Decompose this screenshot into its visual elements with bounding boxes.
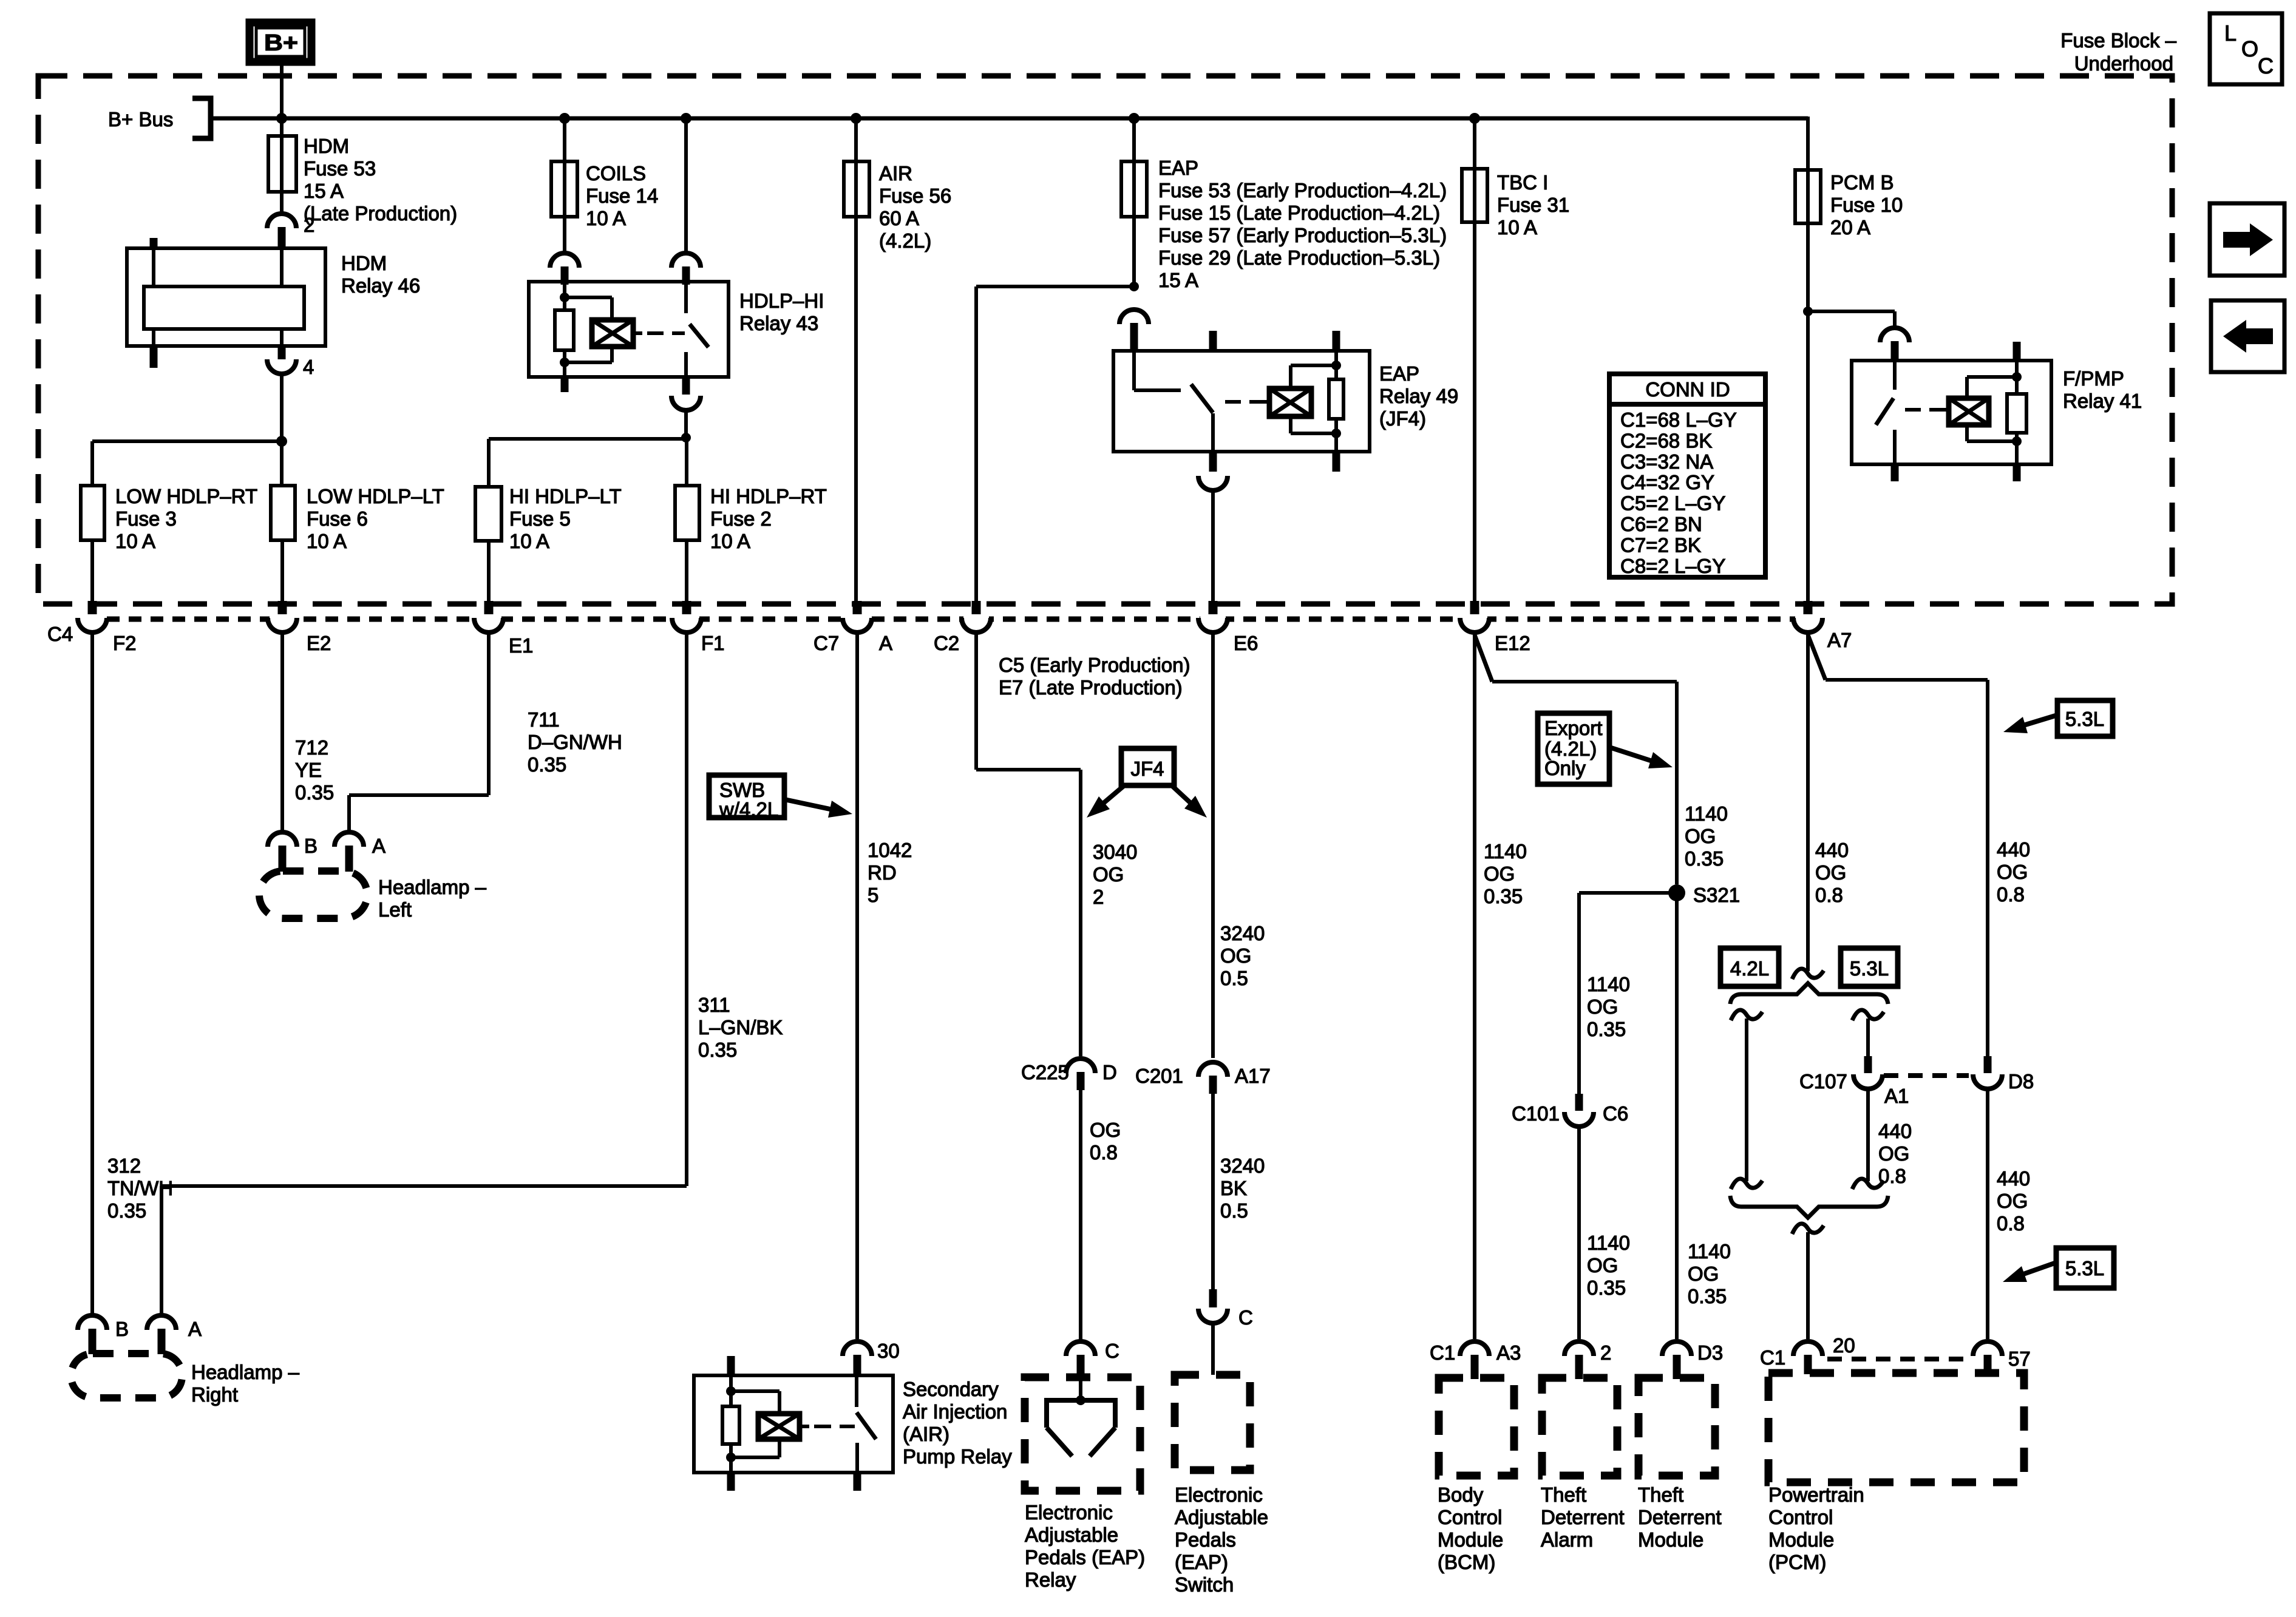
svg-text:Switch: Switch: [1175, 1573, 1234, 1596]
svg-text:0.5: 0.5: [1220, 1199, 1248, 1222]
connector headlamp-left pin A: [335, 832, 385, 872]
svg-text:B+: B+: [264, 30, 298, 56]
svg-text:2: 2: [1093, 886, 1104, 908]
svg-text:C6: C6: [1603, 1102, 1628, 1125]
svg-text:HI HDLP–RT: HI HDLP–RT: [710, 485, 827, 507]
svg-text:3240: 3240: [1220, 1154, 1265, 1177]
EAP switch dashed box: [1175, 1375, 1250, 1470]
relay41 coil X-box: [1949, 398, 1989, 425]
svg-text:3240: 3240: [1220, 922, 1265, 944]
svg-text:Module: Module: [1438, 1528, 1503, 1551]
harness merge brace bottom: [1730, 1196, 1888, 1218]
connector pin E6: [1198, 601, 1258, 654]
svg-text:Only: Only: [1544, 757, 1586, 779]
svg-text:4: 4: [303, 356, 314, 378]
relay49 switch input wire: [1134, 351, 1181, 390]
relay49 coil resistor: [1329, 365, 1343, 433]
AIR relay coil wire bottom: [729, 1457, 733, 1491]
relay46 pin stub bottom-left: [150, 329, 158, 368]
svg-text:5.3L: 5.3L: [1850, 957, 1889, 980]
svg-text:Relay: Relay: [1025, 1568, 1076, 1591]
svg-text:10 A: 10 A: [586, 207, 626, 229]
AIR relay coil X-box: [758, 1414, 800, 1439]
wire bus to EAP fuse: [1132, 118, 1136, 161]
svg-text:C7: C7: [813, 632, 839, 654]
junction bus-COILS: [559, 113, 570, 124]
svg-text:Adjustable: Adjustable: [1175, 1506, 1268, 1528]
svg-text:C107: C107: [1799, 1070, 1847, 1093]
svg-text:E7 (Late Production): E7 (Late Production): [999, 676, 1183, 699]
junction bus-AIR: [851, 113, 861, 124]
svg-text:BK: BK: [1220, 1177, 1247, 1199]
left arrow box (diagram continues): [2211, 300, 2284, 372]
svg-text:S321: S321: [1693, 884, 1740, 906]
svg-text:C1=68 L–GY: C1=68 L–GY: [1620, 408, 1737, 431]
connector pin 2 relay46: [267, 214, 314, 249]
svg-text:Theft: Theft: [1638, 1483, 1683, 1506]
svg-text:Electronic: Electronic: [1175, 1483, 1263, 1506]
harness curl 4.2L top: [1731, 1010, 1762, 1020]
relay43 coil wire bottom: [563, 362, 566, 392]
svg-text:Fuse 57 (Early Production–5.3L: Fuse 57 (Early Production–5.3L): [1158, 224, 1447, 246]
B+ battery terminal box: [250, 22, 311, 62]
svg-text:20 A: 20 A: [1830, 216, 1870, 239]
svg-text:PCM B: PCM B: [1830, 171, 1894, 194]
wire branch to C2: [976, 286, 1134, 603]
relay49 stub top-right: [1333, 331, 1340, 351]
svg-text:B: B: [304, 835, 318, 857]
relay43 coil branch: [565, 297, 612, 320]
svg-text:HDM: HDM: [304, 135, 349, 157]
JF4 arrow left: [1087, 785, 1124, 818]
svg-text:C101: C101: [1512, 1102, 1560, 1125]
5.3L tag box bottom: [2056, 1248, 2114, 1288]
svg-text:1042: 1042: [868, 839, 912, 861]
svg-text:LOW HDLP–LT: LOW HDLP–LT: [307, 485, 444, 507]
svg-text:C4: C4: [47, 623, 73, 645]
dashed link PCM C1-57: [1827, 1357, 1968, 1361]
svg-text:0.8: 0.8: [1815, 884, 1843, 906]
svg-text:10 A: 10 A: [1497, 216, 1537, 239]
svg-text:HDLP–HI: HDLP–HI: [739, 290, 824, 312]
connector relay43 coil pin: [550, 253, 579, 285]
svg-text:OG: OG: [1878, 1142, 1909, 1165]
svg-text:E1: E1: [509, 634, 533, 657]
relay43 coil branch bottom: [565, 347, 612, 362]
wire OG 0.8 to EAP relay: [1079, 1090, 1082, 1340]
wire relay49 out to E6: [1211, 489, 1215, 603]
wire bus to fuse31: [1473, 118, 1476, 170]
svg-text:5.3L: 5.3L: [2065, 1257, 2104, 1280]
relay41 switch contact: [1893, 430, 1897, 481]
connector C225 pin D: [1021, 1059, 1117, 1090]
svg-text:D3: D3: [1697, 1341, 1723, 1364]
svg-text:0.35: 0.35: [528, 753, 566, 776]
relay49 stub top-center: [1209, 331, 1217, 351]
wire 1140 to theft alarm: [1577, 1125, 1581, 1339]
label wire 3240 BK 0.5: [1220, 1154, 1265, 1222]
junction bus-TBC: [1469, 113, 1480, 124]
svg-text:Headlamp –: Headlamp –: [378, 876, 487, 898]
BCM dashed box: [1439, 1378, 1514, 1476]
svg-text:1140: 1140: [1587, 1232, 1630, 1254]
AIR relay switch blade: [857, 1412, 876, 1439]
connector theft module pin D3: [1662, 1341, 1723, 1379]
CONN ID table: [1609, 374, 1765, 577]
svg-text:0.35: 0.35: [295, 781, 334, 804]
svg-text:A: A: [372, 835, 385, 857]
svg-text:Fuse 53 (Early Production–4.2L: Fuse 53 (Early Production–4.2L): [1158, 179, 1447, 202]
connector theft alarm pin 2: [1564, 1341, 1611, 1379]
svg-text:C: C: [2258, 53, 2274, 78]
relay43 coil X-box: [592, 320, 633, 347]
label wire 1140 OG 0.35 upper: [1685, 802, 1728, 870]
label wire 311 L-GN/BK 0.35: [698, 994, 783, 1061]
fuse AIR Fuse 56 60A: [844, 161, 951, 252]
wire relay43 out down: [684, 409, 688, 438]
svg-text:C4=32 GY: C4=32 GY: [1620, 471, 1714, 493]
svg-text:10 A: 10 A: [307, 530, 347, 552]
relay41 dashed link: [1905, 408, 1949, 412]
connector headlamp-left pin B: [268, 832, 318, 872]
svg-text:HI HDLP–LT: HI HDLP–LT: [509, 485, 622, 507]
connector C7 pin A: [813, 601, 892, 654]
svg-text:0.35: 0.35: [698, 1039, 737, 1061]
connector EAP switch pin C: [1198, 1289, 1253, 1329]
svg-text:B: B: [115, 1318, 129, 1340]
svg-text:OG: OG: [1220, 944, 1251, 967]
svg-text:Fuse 2: Fuse 2: [710, 507, 772, 530]
AIR relay coil branch: [731, 1391, 779, 1414]
svg-text:C1: C1: [1760, 1346, 1785, 1369]
AIR relay dashed link: [800, 1425, 855, 1428]
label Electronic Adjustable Pedals (EAP) Relay: [1025, 1501, 1145, 1591]
connector D8: [1973, 1056, 2034, 1093]
svg-text:2: 2: [304, 214, 314, 236]
svg-text:EAP: EAP: [1158, 157, 1198, 179]
harness curl 4.2L bottom: [1731, 1179, 1762, 1189]
AIR relay switch contact: [855, 1443, 859, 1491]
relay41 coil junction bottom: [2012, 436, 2022, 446]
wire fuse3 to F2: [90, 540, 94, 603]
svg-text:Module: Module: [1638, 1528, 1703, 1551]
relay41 coil branch: [1967, 377, 2017, 398]
label Theft Deterrent Module: [1638, 1483, 1722, 1551]
svg-text:Module: Module: [1768, 1528, 1834, 1551]
wire 1140 to BCM: [1473, 632, 1476, 1339]
svg-text:15 A: 15 A: [1158, 269, 1198, 291]
wire merge to PCM pin 20: [1806, 1232, 1810, 1339]
5.3L tag box lower-left: [1841, 948, 1898, 986]
svg-text:1140: 1140: [1484, 840, 1527, 863]
svg-text:D8: D8: [2008, 1070, 2034, 1093]
svg-text:(PCM): (PCM): [1768, 1551, 1826, 1573]
headlamp right dashed outline: [71, 1354, 300, 1406]
svg-text:Fuse 15 (Late Production–4.2L): Fuse 15 (Late Production–4.2L): [1158, 202, 1440, 224]
svg-text:0.35: 0.35: [1484, 885, 1523, 907]
svg-text:2: 2: [1600, 1341, 1611, 1364]
svg-text:OG: OG: [1997, 1190, 2028, 1212]
svg-text:C3=32 NA: C3=32 NA: [1620, 450, 1713, 473]
dashed link C107 to D8: [1884, 1073, 1969, 1078]
connector C101 pin C6: [1512, 1094, 1628, 1127]
relay43 switch contact: [684, 352, 688, 377]
svg-text:L: L: [2224, 21, 2237, 46]
wire S321 branch to C101: [1579, 893, 1677, 1095]
svg-text:Deterrent: Deterrent: [1541, 1506, 1625, 1528]
label wire 711 D-GN/WH 0.35: [528, 708, 622, 776]
svg-text:10 A: 10 A: [710, 530, 750, 552]
svg-text:C: C: [1105, 1340, 1119, 1362]
relay46 pin4 inner wire: [280, 329, 284, 346]
label Electronic Adjustable Pedals (EAP) Switch: [1175, 1483, 1268, 1596]
connector pin E2: [268, 601, 331, 654]
harness curl merge: [1792, 1224, 1824, 1234]
svg-text:0.35: 0.35: [107, 1199, 146, 1222]
svg-text:(BCM): (BCM): [1438, 1551, 1495, 1573]
svg-text:(4.2L): (4.2L): [879, 229, 931, 252]
PCM dashed box: [1768, 1373, 2024, 1482]
connector headlamp-right pin A: [147, 1315, 202, 1354]
svg-text:OG: OG: [1093, 863, 1124, 886]
label wire 440 OG 0.8 C107: [1878, 1120, 1912, 1187]
SWB w/4.2L tag box: [709, 775, 784, 821]
wire EAP fuse down: [1132, 217, 1136, 286]
svg-text:Export: Export: [1544, 717, 1602, 739]
svg-text:F2: F2: [113, 632, 137, 654]
svg-text:0.8: 0.8: [1997, 883, 2025, 906]
svg-text:C225: C225: [1021, 1061, 1069, 1083]
5.3L tag box upper: [2057, 700, 2113, 736]
svg-text:1140: 1140: [1688, 1240, 1731, 1263]
svg-text:20: 20: [1833, 1334, 1855, 1357]
label wire 1140 OG 0.35 BCM: [1484, 840, 1527, 907]
connector PCM pin 57: [1973, 1341, 2031, 1374]
svg-text:Fuse 14: Fuse 14: [586, 185, 658, 207]
AIR relay coil wire top: [729, 1375, 733, 1391]
svg-text:L–GN/BK: L–GN/BK: [698, 1016, 783, 1039]
wire E12 branch to S321: [1475, 635, 1677, 884]
relay41 coil wire bottom: [2015, 441, 2019, 481]
svg-text:OG: OG: [1484, 863, 1515, 885]
svg-text:0.35: 0.35: [1688, 1285, 1727, 1307]
AIR relay coil junction top: [726, 1386, 736, 1396]
svg-text:Theft: Theft: [1541, 1483, 1586, 1506]
relay43 coil junction top: [560, 293, 569, 302]
connector BCM pins C1 A3: [1430, 1341, 1521, 1379]
label Powertrain Control Module (PCM): [1768, 1483, 1864, 1573]
svg-text:Fuse 29 (Late Production–5.3L): Fuse 29 (Late Production–5.3L): [1158, 246, 1440, 269]
harness curl 5.3L top: [1852, 1010, 1884, 1020]
svg-text:0.5: 0.5: [1220, 967, 1248, 989]
connector EAP relay pin C: [1066, 1340, 1119, 1378]
svg-text:440: 440: [1997, 1167, 2030, 1190]
relay49 coil wire bottom: [1334, 433, 1338, 472]
svg-text:C7=2 BK: C7=2 BK: [1620, 534, 1701, 556]
svg-text:Fuse 53: Fuse 53: [304, 157, 376, 180]
svg-text:Pedals (EAP): Pedals (EAP): [1025, 1546, 1145, 1568]
svg-text:3040: 3040: [1093, 841, 1137, 863]
fuse HI HDLP-LT Fuse 5 10A: [475, 485, 622, 552]
wire into EAP switch: [1211, 1322, 1215, 1375]
connector C2 pin C5/E7: [934, 601, 1190, 699]
AIR relay coil junction bottom: [726, 1453, 736, 1462]
svg-text:Fuse 5: Fuse 5: [509, 507, 571, 530]
svg-text:C5 (Early Production): C5 (Early Production): [999, 654, 1190, 676]
relay41 coil branch bottom: [1967, 425, 2017, 441]
relay46 pin2 inner wire: [280, 248, 284, 286]
label wire 1042 RD 5: [868, 839, 912, 906]
relay41 switch blade: [1876, 398, 1894, 425]
svg-text:O: O: [2241, 36, 2258, 61]
wire relay46 pin4 down: [280, 373, 284, 441]
relay HDLP-HI Relay 43 box: [529, 282, 824, 377]
svg-text:OG: OG: [1685, 825, 1716, 847]
relay43 coil junction bottom: [560, 358, 569, 367]
EAP relay element: [1047, 1400, 1115, 1456]
svg-text:OG: OG: [1815, 861, 1846, 884]
label wire 440 OG 0.8 right: [1997, 838, 2030, 906]
relay43 coil wire top: [563, 282, 566, 297]
JF4 arrow right: [1172, 785, 1207, 818]
relay49 coil branch bottom: [1291, 416, 1336, 433]
svg-text:Relay 46: Relay 46: [341, 274, 420, 297]
fuse block underhood dashed border: [38, 76, 2172, 604]
relay49 dashed link: [1225, 400, 1269, 404]
harness curl PCM main: [1792, 969, 1824, 979]
connector relay43 output: [671, 377, 701, 410]
svg-text:E6: E6: [1234, 632, 1258, 654]
svg-text:LOW HDLP–RT: LOW HDLP–RT: [115, 485, 257, 507]
AIR relay coil branch bottom: [731, 1439, 779, 1457]
svg-text:B+ Bus: B+ Bus: [108, 108, 173, 131]
wire 711 to headlamp left A: [349, 632, 489, 830]
Export 4.2L Only tag box: [1538, 713, 1609, 784]
svg-text:TBC I: TBC I: [1497, 171, 1548, 194]
wire bus to fuse14: [563, 118, 566, 161]
svg-text:Relay 41: Relay 41: [2063, 390, 2142, 412]
relay43 coil resistor: [555, 297, 574, 362]
svg-text:D: D: [1102, 1061, 1117, 1083]
svg-text:OG: OG: [1997, 861, 2028, 883]
svg-text:w/4.2L: w/4.2L: [719, 798, 778, 821]
B+ bus wire: [211, 117, 1808, 121]
svg-text:F1: F1: [701, 632, 725, 654]
fuse HDM Fuse 53 15A: [268, 135, 457, 225]
wire branch to fuse 3: [92, 441, 282, 486]
wire 4.2L option: [1745, 1019, 1748, 1181]
relay41 switch wire: [1893, 361, 1897, 390]
harness curl 5.3L bottom: [1852, 1179, 1884, 1189]
relay49 coil branch: [1291, 365, 1336, 388]
label Body Control Module (BCM): [1438, 1483, 1503, 1573]
svg-text:Fuse 3: Fuse 3: [115, 507, 177, 530]
svg-text:C201: C201: [1135, 1065, 1183, 1087]
connector relay49 output: [1198, 452, 1228, 490]
relay43 switch blade: [690, 324, 708, 347]
svg-text:A17: A17: [1235, 1065, 1271, 1087]
svg-text:1140: 1140: [1587, 973, 1630, 995]
wire bus to fuse56: [854, 118, 858, 161]
svg-text:RD: RD: [868, 861, 897, 884]
relay43 coil-switch dashed link: [633, 331, 685, 335]
connector headlamp-right pin B: [78, 1315, 129, 1354]
wire bus to relay43 switch: [684, 118, 688, 251]
svg-text:C1: C1: [1430, 1341, 1455, 1364]
svg-text:Fuse 10: Fuse 10: [1830, 194, 1903, 216]
relay49 switch blade: [1191, 384, 1213, 413]
label wire OG 0.8: [1090, 1119, 1121, 1164]
svg-text:JF4: JF4: [1130, 758, 1164, 780]
wire D8 down to 57: [1986, 1088, 1989, 1339]
svg-text:Pedals: Pedals: [1175, 1528, 1236, 1551]
svg-text:1140: 1140: [1685, 802, 1728, 825]
AIR relay switch wire: [855, 1375, 858, 1407]
wire fuse56 to C7: [854, 217, 858, 603]
junction bus-HDM: [276, 113, 287, 124]
wire branch to relay41: [1808, 311, 1895, 327]
svg-text:Secondary: Secondary: [903, 1378, 999, 1400]
junction EAP fuse branch: [1129, 282, 1139, 291]
wire S321 to theft module: [1675, 893, 1679, 1339]
relay HDM Relay 46 box: [127, 248, 420, 346]
svg-text:Control: Control: [1768, 1506, 1833, 1528]
svg-text:CONN ID: CONN ID: [1645, 378, 1730, 401]
svg-text:Underhood: Underhood: [2074, 52, 2173, 75]
connector pin F1: [672, 601, 725, 654]
wire B+ to bus: [280, 66, 284, 136]
wire fuse5 to E1: [487, 541, 491, 603]
svg-text:440: 440: [1815, 839, 1849, 861]
svg-text:5: 5: [868, 884, 878, 906]
wire C2 to C225: [976, 632, 1081, 1056]
splice S321: [1668, 884, 1740, 906]
relay41 coil stub top: [2013, 342, 2021, 373]
relay EAP Relay 49 box: [1113, 351, 1458, 452]
relay46 pin stub top-left: [150, 238, 158, 286]
5.3L arrow upper: [2003, 715, 2057, 733]
svg-text:(Late Production): (Late Production): [304, 202, 457, 225]
label Theft Deterrent Alarm: [1541, 1483, 1625, 1551]
wire 312 to headlamp right: [90, 632, 94, 1315]
B+ Bus bracket: [108, 98, 211, 138]
svg-text:EAP: EAP: [1379, 362, 1419, 385]
svg-text:YE: YE: [295, 759, 322, 781]
wire 5.3L option lower: [1866, 1088, 1870, 1181]
svg-text:(AIR): (AIR): [903, 1423, 949, 1445]
svg-text:Air Injection: Air Injection: [903, 1400, 1007, 1423]
svg-text:0.35: 0.35: [1587, 1018, 1626, 1040]
svg-text:C6=2 BN: C6=2 BN: [1620, 513, 1702, 535]
svg-text:(JF4): (JF4): [1379, 407, 1426, 430]
wire fuse14 to relay43: [563, 217, 566, 251]
wire 311 to headlamp right A: [161, 632, 687, 1315]
fuse LOW HDLP-LT Fuse 6 10A: [271, 441, 444, 552]
wire fuse6 to E2: [280, 540, 284, 603]
svg-text:10 A: 10 A: [115, 530, 155, 552]
junction node fuse5/fuse2: [681, 433, 691, 442]
EAP relay inner junction: [1076, 1395, 1085, 1405]
label wire 1140 OG 0.35 TDM: [1688, 1240, 1731, 1307]
svg-text:711: 711: [528, 708, 560, 731]
svg-text:0.8: 0.8: [1090, 1141, 1118, 1164]
wire 1042 down to AIR relay: [855, 632, 859, 1339]
relay F/PMP Relay 41 box: [1852, 361, 2142, 464]
wire 712 to headlamp left: [280, 632, 284, 830]
LOC legend box: [2210, 13, 2282, 84]
connector pin E1: [474, 601, 533, 657]
svg-text:OG: OG: [1688, 1263, 1719, 1285]
